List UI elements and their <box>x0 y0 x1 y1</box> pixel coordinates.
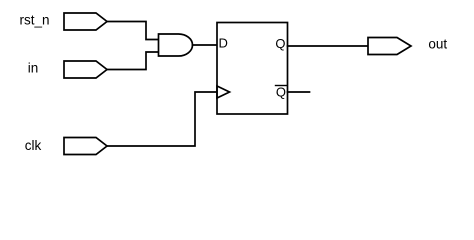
output port out <box>368 38 411 55</box>
svg-text:Q: Q <box>275 36 285 51</box>
wire clk to flip-flop clock pin <box>107 92 217 146</box>
input port rst_n <box>64 13 107 30</box>
svg-text:rst_n: rst_n <box>19 13 49 28</box>
svg-text:clk: clk <box>25 138 42 153</box>
wire AND output to D input <box>193 44 218 46</box>
clock pin triangle <box>217 86 230 98</box>
wire rst_n to AND gate top input <box>107 22 159 40</box>
svg-text:D: D <box>219 36 228 51</box>
svg-text:out: out <box>428 37 447 52</box>
AND gate U1 <box>159 34 193 56</box>
Qbar overline <box>276 85 287 87</box>
wire Q output to out port <box>288 45 369 47</box>
wire in to AND gate bottom input <box>107 52 159 70</box>
svg-text:in: in <box>28 61 39 76</box>
svg-text:Q: Q <box>276 85 286 100</box>
wire Qbar stub <box>288 91 310 93</box>
input port in <box>64 61 107 78</box>
D flip-flop body <box>217 23 288 115</box>
input port clk <box>64 138 107 155</box>
